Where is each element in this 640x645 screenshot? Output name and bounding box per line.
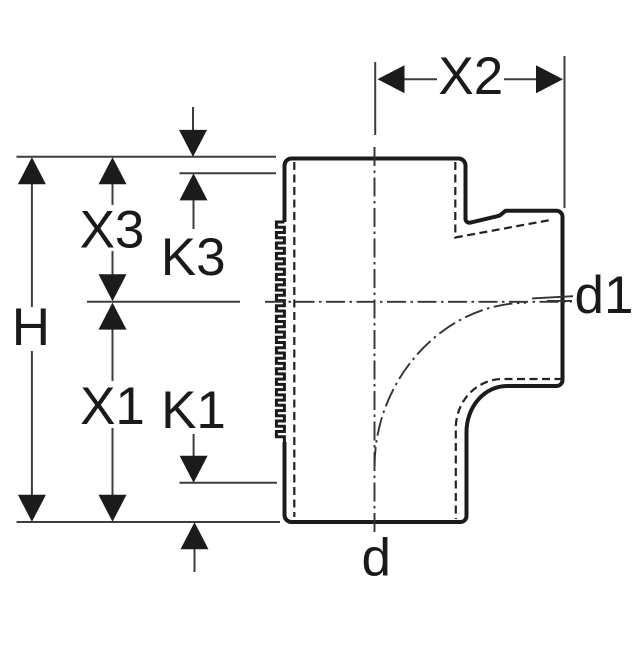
ribbed gasket zone [276,222,284,442]
K3 lower arrow [193,199,195,229]
extension line top [17,156,277,158]
X1 dimension line [112,328,114,497]
K3 depth line [180,172,277,174]
X1 arrow bottom [99,495,127,522]
hidden line: lower socket interior [456,379,563,519]
H dimension line [31,182,33,497]
X2 extension left [374,62,376,135]
K3 upper arrow [192,107,194,131]
X2 dimension line [404,78,536,80]
centerline sweep curve [375,303,526,466]
svg-text:K3: K3 [161,228,226,287]
X3 arrow top [99,157,127,184]
X2 arrow right [536,65,563,93]
hidden line: inner left wall [293,162,295,517]
extension line bottom [17,521,281,523]
X2 arrow left [378,65,405,93]
K1 upper arrow [193,434,196,572]
X3 arrow bottom [99,274,127,301]
fitting body outline [285,159,563,523]
centerline horizontal [265,301,572,303]
svg-text:d1: d1 [575,266,634,325]
svg-text:K1: K1 [161,381,226,440]
H arrow bottom [18,495,46,522]
d1 leader double line [532,296,573,301]
centerline vertical [374,147,376,533]
svg-text:d: d [362,529,391,588]
svg-text:X1: X1 [80,377,145,436]
hidden line: upper socket interior [455,162,553,238]
svg-text:X3: X3 [80,201,145,260]
K1 lower arrow [181,522,209,549]
X2 extension right [564,56,566,208]
svg-text:H: H [12,298,50,357]
svg-text:X2: X2 [438,47,503,106]
X1 arrow top [99,303,127,330]
mid boundary line [87,301,240,303]
K1 depth line [180,482,278,484]
X3 dimension line [112,182,114,276]
H arrow top [18,157,46,184]
